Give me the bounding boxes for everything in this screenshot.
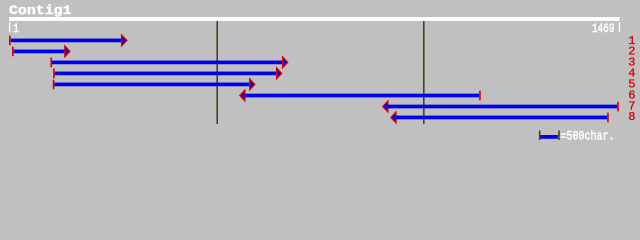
ruler left mark | [9,22,10,32]
ruler right mark | [619,22,620,32]
read 8 arrow (reverse) [391,112,609,123]
svg-text:1: 1 [13,21,19,36]
read 1 arrow (forward) [9,35,127,46]
svg-text:Contig1: Contig1 [9,3,72,18]
svg-text:8: 8 [628,110,635,124]
500-char tick line 2 [423,21,425,124]
500-char tick line 1 [216,21,218,124]
read 7 arrow (reverse) [383,101,619,112]
read 2 arrow (forward) [12,46,70,57]
svg-text:=500char.: =500char. [561,129,615,143]
legend [539,129,615,144]
read 3 arrow (forward) [50,57,287,68]
read 4 arrow (forward) [53,68,282,79]
read 6 arrow (reverse) [240,90,481,101]
ruler white bar [9,17,620,21]
svg-text:1469: 1469 [592,21,615,36]
read 5 arrow (forward) [53,79,255,90]
